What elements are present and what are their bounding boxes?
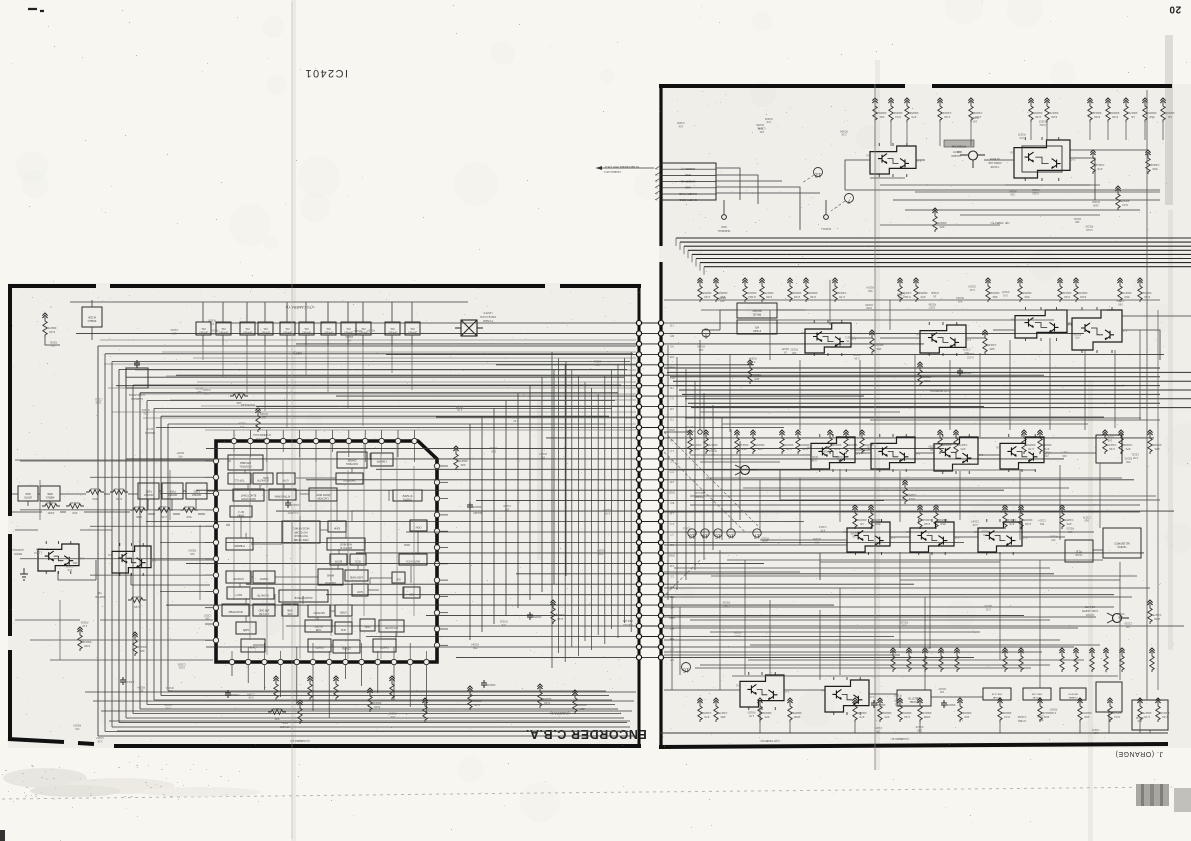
resistor R2520 bbox=[917, 505, 931, 529]
IC function block SYNATR bbox=[393, 490, 422, 501]
IC pin wire bbox=[331, 444, 333, 452]
IC internal wire bbox=[330, 610, 335, 612]
bus vertical right bbox=[667, 345, 669, 600]
band1 wire bbox=[957, 152, 1014, 160]
connector wire left bbox=[246, 583, 636, 585]
connector wire left bbox=[296, 343, 636, 345]
resistor lead bbox=[1107, 122, 1109, 140]
connector wire left bbox=[476, 500, 636, 502]
left cluster wire bbox=[100, 619, 213, 621]
arrow head bbox=[596, 166, 602, 170]
connector wire right bbox=[664, 353, 1164, 355]
block box U303 bbox=[258, 322, 273, 335]
resistor R2521 bbox=[1018, 505, 1032, 529]
connector wire right bbox=[664, 447, 944, 449]
transistor Q215/Q216 bbox=[1011, 307, 1072, 341]
wire bbox=[664, 431, 690, 433]
bus ring bottom bbox=[147, 704, 615, 706]
IC function block THERMO bbox=[226, 538, 253, 550]
bus ring left bbox=[153, 408, 155, 700]
resistor R232 bbox=[982, 330, 996, 354]
left bus extra bbox=[100, 339, 636, 341]
terminal stubs bbox=[724, 200, 826, 214]
resistor R311 bbox=[42, 313, 56, 337]
inter-band wire bbox=[748, 659, 1084, 661]
connector wire right bbox=[664, 322, 844, 324]
filter box U3138 bbox=[138, 483, 159, 499]
IC internal wire bbox=[338, 549, 340, 554]
inter-band wire bbox=[695, 667, 1031, 669]
transistor Q301/Q302 bbox=[34, 541, 84, 574]
bus vertical right bbox=[712, 405, 714, 550]
IC internal wire bbox=[296, 477, 336, 479]
IC pin wire bbox=[263, 643, 265, 659]
IC function block MY 2 bbox=[230, 506, 252, 517]
left bus extra bbox=[139, 393, 636, 395]
left bus extra bbox=[193, 357, 636, 359]
callout 15 bbox=[714, 529, 722, 539]
connector wire left bbox=[546, 437, 636, 439]
band5 long wire bbox=[664, 651, 1042, 653]
bus bundle 1 stub bbox=[695, 259, 697, 267]
resistor R21145 bbox=[1142, 98, 1156, 122]
IC internal bus bbox=[330, 444, 332, 636]
resistor R2716 bbox=[713, 698, 727, 722]
bus ring bottom bbox=[154, 699, 612, 701]
audio shield box U302 bbox=[82, 307, 102, 327]
bus bundle 1 line bbox=[696, 258, 1191, 260]
IC function block UHA bbox=[335, 622, 352, 634]
Q241 leads bbox=[1107, 613, 1129, 623]
bus ring top bbox=[168, 423, 606, 425]
resistor R224 bbox=[932, 208, 946, 232]
resistor R2536 bbox=[933, 505, 947, 529]
bus bundle 1 stub bbox=[683, 246, 685, 254]
scan seam line bbox=[874, 84, 876, 770]
resistor R2755 bbox=[852, 698, 866, 722]
bus ring left bbox=[111, 362, 113, 727]
bus drop vertical bbox=[529, 385, 531, 600]
bus bundle 1 stub bbox=[691, 254, 693, 262]
resistor R325 bbox=[132, 632, 146, 656]
bus bundle 2 line bbox=[676, 385, 1160, 387]
bus ring bottom bbox=[98, 735, 636, 737]
IC internal wire bbox=[370, 578, 392, 584]
IC left pin wire bbox=[160, 590, 213, 592]
IC function block OGH bbox=[360, 619, 375, 631]
resistor R2320 bbox=[1017, 278, 1031, 302]
bus bundle 1 stub bbox=[699, 263, 701, 271]
bus ring left bbox=[125, 377, 127, 718]
callout 13 bbox=[688, 529, 696, 539]
connector wire right bbox=[664, 531, 1094, 533]
vertical wire bbox=[1114, 350, 1116, 428]
IC function block (USD WIND bbox=[345, 570, 368, 581]
IC internal bus bbox=[413, 466, 415, 616]
resistor R2621 bbox=[1018, 648, 1023, 672]
box drop wire bbox=[222, 345, 224, 377]
left cluster wire bbox=[30, 639, 213, 641]
resistor R255 bbox=[1002, 505, 1016, 529]
resistor R2390 bbox=[787, 278, 801, 302]
connector wire right bbox=[664, 625, 1184, 627]
block box U302 bbox=[240, 322, 255, 335]
bus vertical right bbox=[676, 357, 678, 590]
corner registration mark bbox=[28, 9, 44, 11]
band3 wire bbox=[855, 453, 1096, 455]
box drop wire bbox=[327, 345, 329, 392]
transistor Q231/Q232 bbox=[843, 519, 895, 555]
IC internal bus bbox=[299, 444, 301, 659]
IC internal wire bbox=[331, 644, 333, 646]
IC internal wire bbox=[299, 516, 301, 543]
connector wire right bbox=[664, 427, 784, 429]
resistor R2316 bbox=[713, 278, 727, 302]
resistor R2790 bbox=[787, 698, 801, 722]
leader bbox=[831, 201, 845, 211]
block box U300 bbox=[196, 322, 211, 335]
hybrid box bbox=[1103, 528, 1141, 558]
IC internal wire bbox=[359, 631, 361, 639]
connector wire left bbox=[356, 552, 636, 554]
capacitor C251 bbox=[871, 700, 885, 708]
resistor R2421 bbox=[1118, 430, 1132, 454]
connector wire right bbox=[664, 385, 1124, 387]
resistor lead bbox=[1089, 122, 1091, 140]
resistor lead bbox=[874, 122, 876, 146]
wire bbox=[391, 302, 393, 345]
resistor R2437 bbox=[734, 430, 748, 454]
IC pin wire bbox=[247, 647, 249, 659]
IC pin wire bbox=[344, 647, 346, 659]
luminance camera box U303 bbox=[126, 368, 148, 388]
IC internal wire bbox=[226, 524, 230, 526]
box drop wire bbox=[411, 345, 413, 390]
vertical wire bbox=[1084, 350, 1086, 430]
connector wire right bbox=[664, 562, 764, 564]
bus drop vertical bbox=[493, 408, 495, 624]
connector wire left bbox=[286, 625, 636, 627]
resistor R2641 bbox=[938, 648, 943, 672]
eq box bbox=[897, 690, 931, 706]
wire bbox=[91, 300, 93, 340]
IC pin wire bbox=[409, 643, 411, 659]
vertical wire bbox=[979, 353, 981, 437]
wire bbox=[148, 499, 196, 510]
inter-band wire bbox=[669, 469, 1035, 471]
transistor Q223/Q224 bbox=[867, 434, 920, 472]
resistor R2440 bbox=[937, 430, 951, 454]
band wire bbox=[700, 664, 1050, 666]
IC function block ELHC TOAAT bbox=[233, 489, 264, 501]
connector CN201 table bbox=[655, 163, 716, 201]
IC function block IOHA bbox=[328, 521, 346, 532]
xtal box bbox=[1132, 700, 1168, 730]
IC internal wire bbox=[364, 544, 366, 554]
bus vertical bbox=[604, 376, 606, 644]
bus ring bottom bbox=[119, 722, 627, 724]
bus ring top bbox=[147, 400, 615, 402]
resistor R326 bbox=[268, 707, 286, 721]
band wire bbox=[750, 644, 1100, 646]
bus vertical right bbox=[721, 417, 723, 540]
resistor lead bbox=[1162, 122, 1164, 140]
resistor R2453 bbox=[750, 430, 764, 454]
vertical wire bbox=[1099, 463, 1101, 528]
resistor R2571 bbox=[868, 505, 882, 529]
resistor R2462 bbox=[859, 430, 873, 454]
resistor R2345 bbox=[742, 278, 756, 302]
resistor lead bbox=[939, 122, 941, 146]
resistor R2940 bbox=[937, 98, 951, 122]
transistor Q204/Q205 bbox=[1010, 137, 1075, 181]
bus bundle 1 line bbox=[684, 245, 1191, 247]
connector wire left bbox=[436, 416, 636, 418]
wire bbox=[286, 302, 288, 345]
IC internal wire bbox=[245, 598, 247, 604]
bus vertical bbox=[551, 352, 553, 668]
connector wire left bbox=[386, 353, 636, 355]
resistor R2693 bbox=[890, 648, 895, 672]
box drop wire bbox=[286, 345, 288, 428]
vertical wire bbox=[899, 552, 901, 648]
input box U311 bbox=[40, 486, 60, 501]
band wire bbox=[710, 631, 980, 633]
long bottom wire bbox=[85, 691, 636, 693]
band wire bbox=[700, 461, 780, 463]
resistor R2440 bbox=[1037, 430, 1051, 454]
bus ring top bbox=[98, 345, 636, 347]
inter-band wire bbox=[722, 423, 1088, 425]
bus ring bottom bbox=[133, 713, 621, 715]
IC internal bus bbox=[380, 452, 382, 659]
bus ring left bbox=[167, 424, 169, 691]
IC internal wire bbox=[320, 529, 328, 531]
bus bundle 1 line bbox=[692, 253, 1191, 255]
table fan bbox=[716, 168, 820, 230]
encoder board border bottom bbox=[8, 739, 641, 746]
connector wire right bbox=[664, 636, 894, 638]
resistor R3336 bbox=[333, 676, 338, 700]
resistor R342 bbox=[550, 600, 564, 624]
bus ring left bbox=[118, 369, 120, 722]
band wire bbox=[690, 544, 760, 546]
block box U305 bbox=[299, 322, 314, 335]
resistor R2335 bbox=[832, 278, 846, 302]
IC internal wire bbox=[259, 485, 261, 490]
inter-band wire bbox=[690, 495, 1156, 497]
left cluster wire bbox=[15, 529, 38, 531]
wire bbox=[222, 302, 224, 345]
resistor R341 bbox=[453, 446, 467, 470]
resistor R222 bbox=[1145, 150, 1159, 174]
IC left pins bbox=[205, 458, 219, 643]
inter-band wire bbox=[706, 477, 1122, 479]
resistor R3470 bbox=[467, 686, 481, 710]
wire bbox=[327, 302, 329, 345]
IC left pin wire bbox=[90, 574, 213, 576]
IC function block BCRUTHER bbox=[222, 604, 249, 616]
IC function block UTBR bbox=[335, 605, 352, 616]
resistor R265 bbox=[1002, 648, 1007, 672]
band6 drops bbox=[1109, 712, 1150, 733]
vertical wire bbox=[999, 552, 1001, 660]
resistor R2376 bbox=[1073, 278, 1087, 302]
band1 extra wire bbox=[1005, 184, 1090, 186]
IC function block OH AGUTR bbox=[379, 620, 404, 632]
vertical wire bbox=[799, 360, 801, 430]
connector wire right bbox=[664, 583, 914, 585]
connector wire right bbox=[664, 395, 864, 397]
vertical wire bbox=[1119, 562, 1121, 680]
connector wire left bbox=[456, 656, 636, 658]
bus bundle 2 line bbox=[682, 393, 1160, 395]
connector wire left bbox=[176, 374, 636, 376]
IC function block GRNTO bbox=[308, 639, 331, 652]
bus bundle 2 line bbox=[664, 367, 1160, 369]
leader line bbox=[664, 560, 700, 596]
bus vertical right bbox=[730, 429, 732, 530]
connector wire left bbox=[216, 322, 636, 324]
IC pin wire bbox=[233, 444, 235, 452]
connector wire left bbox=[426, 615, 636, 617]
IC function block OOH bbox=[410, 520, 427, 531]
IC internal wire bbox=[317, 617, 319, 620]
IC internal wire bbox=[275, 576, 318, 578]
resistor R256 bbox=[1147, 600, 1161, 624]
resistor R266 bbox=[1103, 648, 1108, 672]
camera board border bottom bbox=[659, 744, 1168, 747]
IC internal wire bbox=[291, 521, 293, 543]
bus vertical bbox=[558, 358, 560, 653]
block box U309 bbox=[385, 322, 400, 335]
box drop wire bbox=[362, 345, 364, 426]
inter-band wire bbox=[701, 309, 1107, 311]
IC internal wire bbox=[300, 493, 309, 495]
IC function block GCN bbox=[350, 554, 366, 565]
resistor R2388 bbox=[985, 278, 999, 302]
resistor R2456 bbox=[953, 430, 967, 454]
band3 wire bbox=[757, 470, 1160, 500]
connector wire left bbox=[76, 332, 636, 334]
resistor lead bbox=[890, 122, 892, 146]
resistor R2424 bbox=[1021, 430, 1035, 454]
IC function block M.SHUTR bbox=[252, 588, 274, 599]
vertical wire bbox=[719, 550, 721, 690]
transistor Q251/Q252 bbox=[736, 672, 789, 710]
left bus extra bbox=[201, 405, 636, 407]
inter-band wire bbox=[685, 417, 1141, 419]
IC left pin wire bbox=[20, 509, 213, 511]
label attention box bbox=[944, 140, 974, 157]
resistor R3310 bbox=[307, 676, 312, 700]
resistor lead bbox=[1046, 122, 1048, 140]
transistor Q303/Q304 bbox=[108, 543, 156, 576]
bus bundle 2 line bbox=[691, 407, 1191, 409]
band wire bbox=[690, 454, 811, 456]
IC internal wire bbox=[388, 490, 390, 501]
band wire bbox=[935, 504, 1100, 506]
connector wire left bbox=[146, 521, 636, 523]
resistor R327 bbox=[297, 700, 302, 724]
Q203 leads bbox=[960, 155, 985, 168]
wire bbox=[202, 302, 204, 345]
resistor R21031 bbox=[1028, 98, 1042, 122]
ws box bbox=[737, 320, 777, 334]
wire bbox=[246, 302, 248, 345]
t3 box bbox=[1060, 688, 1086, 700]
inter-band wire bbox=[674, 567, 1050, 569]
resistor R21047 bbox=[1044, 98, 1058, 122]
bus vertical bbox=[624, 358, 626, 623]
input box U310 bbox=[18, 486, 38, 501]
transistor Q211/Q212 bbox=[801, 320, 856, 356]
IC internal wire bbox=[247, 484, 249, 489]
IC internal wire bbox=[351, 617, 353, 622]
bottom-right scan artifact bbox=[1136, 784, 1191, 812]
left cluster wire bbox=[80, 529, 112, 531]
bus ring left bbox=[104, 354, 106, 732]
bus ring top bbox=[119, 368, 627, 370]
vertical wire bbox=[914, 355, 916, 437]
resistor R2760 bbox=[957, 698, 971, 722]
resistor R234 bbox=[917, 362, 931, 386]
band wire bbox=[900, 579, 1120, 581]
bus drop vertical bbox=[469, 424, 471, 640]
resistor R230 bbox=[897, 278, 911, 302]
t2 box bbox=[1023, 688, 1051, 700]
fil box bbox=[1065, 540, 1093, 562]
vertical wire bbox=[859, 360, 861, 437]
IC left pin wire bbox=[90, 525, 213, 527]
left cluster wire bbox=[169, 470, 171, 520]
resistor R315 bbox=[86, 487, 104, 501]
IC function block BOY? bbox=[227, 587, 250, 599]
resistor R324 bbox=[77, 627, 91, 651]
resistor R245 bbox=[1102, 430, 1116, 454]
band6 drops bbox=[760, 707, 1140, 733]
board-to-board connector pins bbox=[636, 320, 663, 660]
IC left pin wire bbox=[20, 558, 213, 560]
resistor R2562 bbox=[1059, 505, 1073, 529]
left bus extra bbox=[104, 363, 636, 365]
resistor R2780 bbox=[1077, 698, 1091, 722]
bus bundle 2 line bbox=[688, 402, 1160, 404]
IC function block (AUTO ACY) bbox=[399, 554, 427, 565]
bus vertical bbox=[577, 376, 579, 656]
vertical wire bbox=[699, 340, 701, 430]
transistor Q213/Q214 bbox=[916, 322, 971, 356]
connector wire right bbox=[664, 573, 1054, 575]
bus bundle 2 line bbox=[670, 376, 1160, 378]
left bus extra bbox=[174, 423, 636, 425]
bus vertical bbox=[564, 364, 566, 662]
bus ring top bbox=[140, 392, 618, 394]
IC function block GOH bbox=[352, 584, 368, 596]
connector wire right bbox=[664, 416, 1104, 418]
resistor R270 bbox=[997, 698, 1011, 722]
IC pin wire bbox=[266, 444, 268, 462]
resistor R246 bbox=[703, 430, 717, 454]
vertical wire bbox=[889, 300, 891, 330]
capacitor C305 bbox=[134, 360, 140, 368]
connector wire left bbox=[336, 395, 636, 397]
callout 14 bbox=[701, 529, 709, 539]
resistor R270 bbox=[697, 698, 711, 722]
inter-band wire bbox=[738, 319, 1054, 321]
band wire bbox=[1000, 511, 1140, 513]
resistor R2316 bbox=[913, 278, 927, 302]
